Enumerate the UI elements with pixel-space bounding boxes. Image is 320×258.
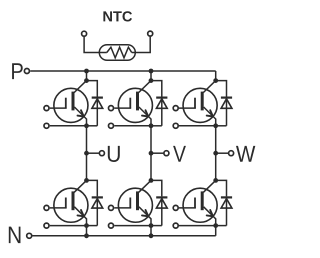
NTC right terminal [148,31,153,36]
wire D3 anode to Q3 emitter node [216,125,227,127]
wire Q6 gate lead [179,207,196,209]
IGBT Q2 (upper V-phase) [118,81,152,126]
wire phase W tap to terminal [216,152,228,154]
node Q4 collector branch [84,178,89,183]
wire Q2 gate lead [114,107,131,109]
IGBT Q6 (lower W-phase) [183,180,217,225]
wire D4 anode to Q4 emitter node [87,225,98,227]
wire Q1 gate lead [50,107,67,109]
wire NTC left terminal to thermistor [84,37,107,53]
terminal Q6 gate [173,205,178,210]
label P [12,63,23,79]
label V [173,146,186,162]
node Q1 collector branch [84,78,89,83]
wire D6 anode to Q6 emitter node [216,225,227,227]
node Q5 collector branch [149,178,154,183]
node N-U junction [84,233,89,238]
wire P bus (positive rail) [30,70,216,72]
terminal P [24,69,29,74]
wire Q3 collector node to D3 cathode [216,81,227,97]
diode D5 (lower V-phase freewheel) [156,197,167,225]
terminal Q5 gate [109,205,114,210]
wire Q4 auxiliary emitter lead [50,225,87,227]
node P-U junction [84,69,89,74]
NTC label [103,11,132,21]
IGBT Q1 (upper U-phase) [54,81,88,126]
wire Q2 collector node to D2 cathode [151,81,162,97]
node Q5 emitter junction [149,223,154,228]
wire phase U node down to Q4 collector node [86,153,88,181]
wire Q2 emitter down to phase V node [150,126,152,153]
node P-V junction [149,69,154,74]
wire Q3 auxiliary emitter lead [179,125,216,127]
terminal N [27,233,32,238]
thermistor RT1 body (NTC) [99,45,135,61]
terminal Q4 gate [44,205,49,210]
terminal W [229,151,234,156]
thermistor RT1 zigzag element [107,47,132,58]
wire P rail down to Q1 collector node [86,71,88,81]
wire Q6 auxiliary emitter lead [179,225,216,227]
node Q1 emitter junction [84,123,89,128]
node Q3 emitter junction [213,123,218,128]
label U [108,146,120,162]
terminal Q1 auxiliary emitter [44,123,49,128]
wire P rail down to Q2 collector node [150,71,152,81]
terminal Q2 auxiliary emitter [109,123,114,128]
diode D1 (upper U-phase freewheel) [92,98,103,126]
IGBT Q5 (lower V-phase) [118,180,152,225]
wire Q1 collector node to D1 cathode [87,81,98,97]
terminal V [164,151,169,156]
terminal Q2 gate [109,106,114,111]
diode D3 (upper W-phase freewheel) [221,98,232,126]
terminal Q1 gate [44,106,49,111]
node Q2 emitter junction [149,123,154,128]
node Q2 collector branch [149,78,154,83]
wire Q5 collector node to D5 cathode [151,180,162,196]
wire Q4 gate lead [50,207,67,209]
wire D5 anode to Q5 emitter node [151,225,162,227]
label N [9,227,21,244]
wire Q6 emitter down to N rail [215,226,217,236]
wire Q3 emitter down to phase W node [215,126,217,153]
diode D6 (lower W-phase freewheel) [221,197,232,225]
wire phase W node down to Q6 collector node [215,153,217,181]
wire N bus (negative rail) [33,235,216,237]
wire P rail end down to Q3 collector node [215,71,217,81]
wire Q5 auxiliary emitter lead [114,225,151,227]
wire thermistor to NTC right terminal [132,37,151,53]
IGBT Q3 (upper W-phase) [183,81,217,126]
terminal Q5 auxiliary emitter [109,223,114,228]
wire Q3 gate lead [179,107,196,109]
wire phase V node down to Q5 collector node [150,153,152,181]
node N-V junction [149,233,154,238]
wire Q6 collector node to D6 cathode [216,180,227,196]
terminal Q4 auxiliary emitter [44,223,49,228]
wire Q1 auxiliary emitter lead [50,125,87,127]
node Q6 collector branch [213,178,218,183]
NTC left terminal [82,31,87,36]
wire Q1 emitter down to phase U node [86,126,88,153]
wire Q4 collector node to D4 cathode [87,180,98,196]
wire Q4 emitter down to N rail [86,226,88,236]
node Q6 emitter junction [213,223,218,228]
IGBT Q4 (lower U-phase) [54,180,88,225]
terminal Q6 auxiliary emitter [173,223,178,228]
label W [236,146,255,162]
node phase U tap [84,151,89,156]
wire Q5 gate lead [114,207,131,209]
node Q3 collector branch [213,78,218,83]
wire Q2 auxiliary emitter lead [114,125,151,127]
terminal Q3 gate [173,106,178,111]
terminal U [99,151,104,156]
wire Q5 emitter down to N rail [150,226,152,236]
terminal Q3 auxiliary emitter [173,123,178,128]
wire D1 anode to Q1 emitter node [87,125,98,127]
node Q4 emitter junction [84,223,89,228]
wire phase U tap to terminal [87,152,99,154]
wire phase V tap to terminal [151,152,163,154]
diode D4 (lower U-phase freewheel) [92,197,103,225]
diode D2 (upper V-phase freewheel) [156,98,167,126]
node phase W tap [213,151,218,156]
wire D2 anode to Q2 emitter node [151,125,162,127]
node phase V tap [149,151,154,156]
